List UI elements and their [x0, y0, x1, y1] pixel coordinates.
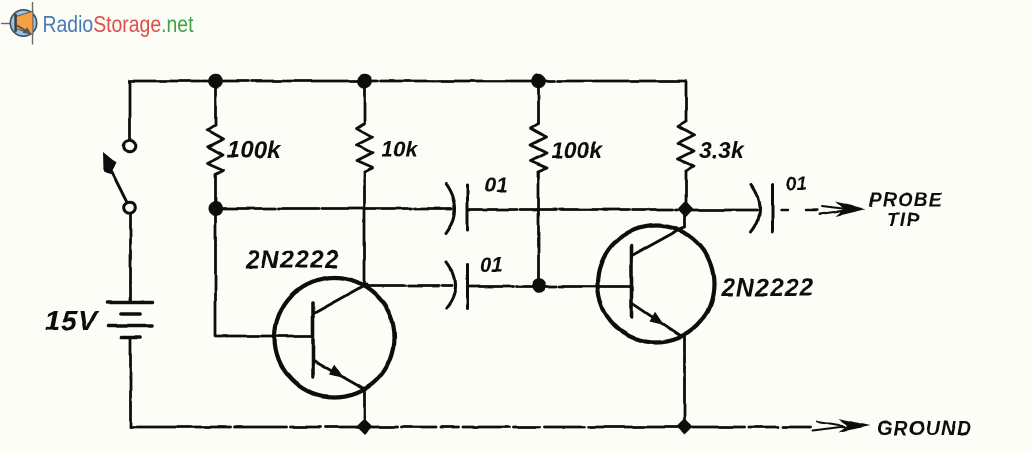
resistor R2 10k: [357, 81, 373, 285]
svg-text:100k: 100k: [551, 137, 603, 163]
wire C1 to node B: [468, 208, 686, 211]
junction dot node C (R3 bottom / Q2 base wire): [532, 278, 546, 292]
probe tip arrow: [781, 202, 866, 217]
logo transistor icon: [1, 2, 37, 45]
battery B1 15V: [108, 302, 152, 337]
top rail wire: [130, 80, 686, 83]
wire R1 node down to Q1 base: [216, 209, 312, 337]
svg-text:2N2222: 2N2222: [245, 246, 340, 274]
resistor R4 3.3k: [678, 81, 694, 210]
svg-text:10k: 10k: [381, 137, 419, 162]
resistor R3 100k: [531, 81, 547, 285]
capacitor C2 .01: [447, 262, 468, 309]
wire node A horizontal (base R1 to C1): [216, 207, 453, 210]
junction dot top rail / R3: [531, 74, 546, 89]
wire switch to battery: [129, 214, 132, 300]
bottom rail wire: [131, 426, 811, 429]
wire battery to bottom rail: [129, 339, 132, 427]
svg-text:15V: 15V: [45, 305, 99, 336]
junction dot top rail / R1: [208, 74, 223, 89]
junction dot node A (R1 bottom): [209, 202, 223, 216]
resistor R1 100k: [208, 81, 224, 208]
wire collector Q1 / node C to C2: [366, 284, 452, 287]
junction dot bottom rail / Q1 emitter: [357, 419, 373, 435]
svg-text:100k: 100k: [227, 137, 282, 164]
svg-text:01: 01: [786, 174, 807, 195]
ground arrow: [812, 419, 870, 433]
junction dot bottom rail / Q2 emitter: [677, 419, 693, 435]
capacitor C1 .01: [446, 184, 468, 234]
wire C2 to base Q2: [468, 285, 631, 288]
svg-text:3.3k: 3.3k: [699, 137, 745, 163]
wire node B to C3: [685, 209, 757, 212]
switch S1: [103, 141, 135, 214]
svg-text:01: 01: [484, 174, 507, 197]
wire left drop to switch: [129, 81, 132, 140]
junction dot top rail / R2: [357, 74, 372, 89]
svg-text:PROBE: PROBE: [869, 190, 943, 211]
svg-text:RadioStorage.net: RadioStorage.net: [43, 11, 194, 37]
svg-text:2N2222: 2N2222: [720, 274, 815, 302]
svg-text:TIP: TIP: [887, 210, 920, 231]
svg-text:GROUND: GROUND: [877, 418, 972, 440]
svg-text:01: 01: [480, 254, 503, 277]
capacitor C3 .01 output: [751, 184, 773, 232]
transistor Q1 2N2222: [275, 278, 395, 428]
junction dot node B (R4 bottom / Q2 collector): [678, 201, 694, 218]
transistor Q2 2N2222: [598, 210, 715, 427]
